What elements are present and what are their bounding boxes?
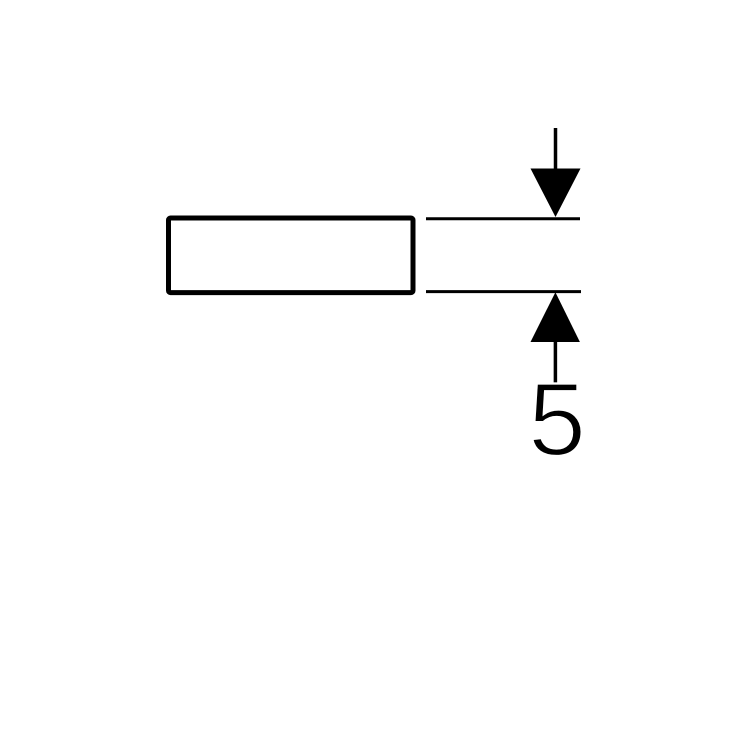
svg-text:5: 5 — [528, 362, 586, 478]
extension line top — [426, 217, 580, 220]
arrow down stem — [554, 128, 558, 180]
arrow down head — [531, 169, 581, 218]
arrow up head — [531, 292, 580, 342]
panel cross-section rectangle — [169, 218, 414, 293]
arrow up stem — [554, 338, 558, 383]
extension line bottom — [426, 290, 581, 293]
